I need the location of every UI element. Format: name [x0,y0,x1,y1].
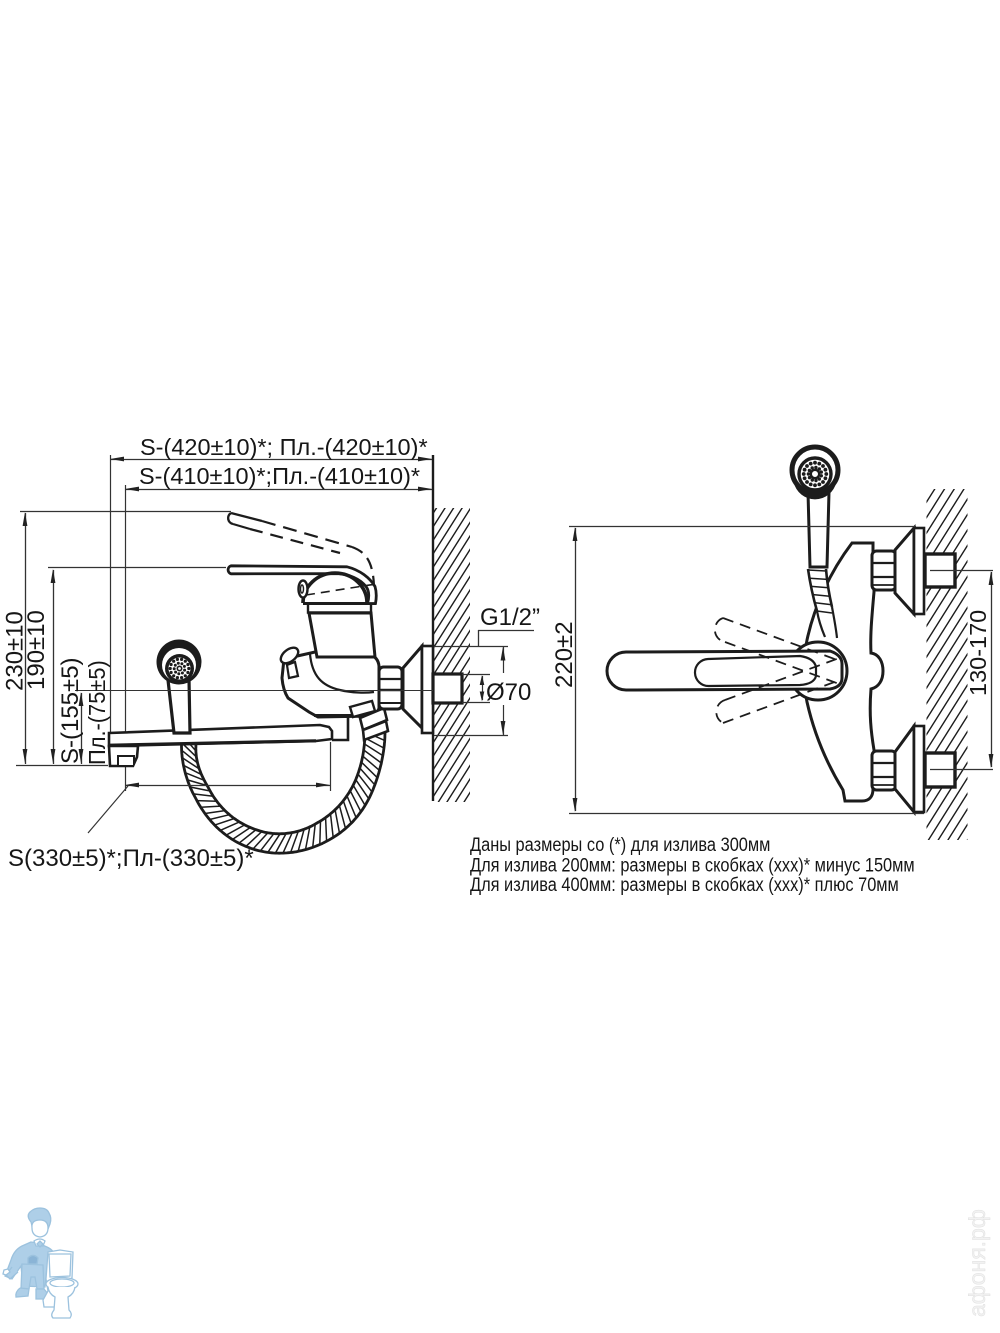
dome dashed chord [306,584,376,595]
svg-text:G1/2”: G1/2” [480,604,540,631]
hose (flexible shower hose, left view U-curve) [182,731,386,853]
eccentric cone bottom right view [895,726,914,812]
hose right view [808,569,832,611]
hex nut top right view [872,551,896,590]
extension line x125 [125,485,127,791]
svg-text:Для излива 400мм: размеры в ск: Для излива 400мм: размеры в скобках (ххх… [470,874,899,896]
escutcheon plate top right view [914,528,924,614]
dim 190±10 [48,567,226,569]
dim 130-170 [930,570,993,572]
diverter knob left view [287,662,298,678]
svg-text:афоня.рф: афоня.рф [964,1209,990,1317]
eccentric cone left view [403,646,422,728]
dim O70 extension lines [434,646,508,648]
handle rosette right view [789,642,847,700]
svg-text:Ø70: Ø70 [486,679,531,706]
pipe thread dim (G1/2) [462,674,490,676]
dim O70 [503,646,505,673]
dim S-(410) [125,489,432,491]
wall hatch left view [433,440,471,878]
svg-text:S-(155±5): S-(155±5) [57,657,84,764]
supply pipe bottom right view [925,753,955,787]
mixer body left view [282,652,379,717]
hex nut bottom right view [872,751,896,790]
svg-text:S(330±5)*;Пл-(330±5)*: S(330±5)*;Пл-(330±5)* [8,845,254,872]
dim S-(155±5) / Пл.-(75±5) [81,693,83,764]
dim S-(420) top [110,459,432,461]
cartridge ring [308,603,371,613]
supply pipe left view [433,674,462,703]
cartridge dome left view [303,573,367,603]
leader line to 330 label [88,786,128,833]
hand shower head left view [157,640,202,685]
hand shower handle right view [808,492,829,567]
lever handle (solid position) left view [228,566,376,604]
svg-text:Пл.-(75±5): Пл.-(75±5) [84,660,110,765]
spout aerator housing [109,746,138,766]
svg-text:S-(420±10)*; Пл.-(420±10)*: S-(420±10)*; Пл.-(420±10)* [140,434,428,460]
dashed handle positions right view [715,618,725,642]
handle inner contour right view [695,656,816,686]
spout (излив) left view [109,725,332,746]
svg-text:S-(410±10)*;Пл.-(410±10)*: S-(410±10)*;Пл.-(410±10)* [139,463,420,489]
dim 230±10 [20,511,231,513]
svg-text:220±2: 220±2 [551,621,578,688]
hex nut left view [379,667,402,709]
extension line x330 (body axis) [330,742,332,791]
escutcheon plate left view [422,646,433,733]
wall hatch right view [925,419,969,908]
body inner contour [310,654,374,693]
body lower foot over spout [332,717,348,740]
wall edge line left view [432,455,434,801]
mixer body right view [804,543,883,801]
handle screw cover ellipse [299,581,308,598]
lever handle raised position (dashed) [228,513,233,524]
axis line left view [75,690,433,692]
escutcheon plate bottom right view [914,726,924,812]
svg-text:190±10: 190±10 [23,610,50,690]
svg-text:Даны размеры со (*) для излива: Даны размеры со (*) для излива 300мм [470,834,770,856]
lever handle solid right view [607,651,842,690]
svg-text:130-170: 130-170 [965,610,991,696]
dim 330 bottom [125,785,330,787]
watermark plumber logo [3,1208,78,1318]
eccentric cone top right view [895,528,914,614]
hand shower head right view [792,447,838,493]
dim 220±2 [569,526,916,528]
hose connection nut left view [350,701,375,717]
hand shower handle left view [168,679,190,733]
svg-text:Для излива 200мм: размеры в ск: Для излива 200мм: размеры в скобках (ххх… [470,854,915,876]
body column left view [309,613,375,657]
supply pipe top right view [925,554,955,587]
extension line x110 (spout tip) [110,455,112,733]
